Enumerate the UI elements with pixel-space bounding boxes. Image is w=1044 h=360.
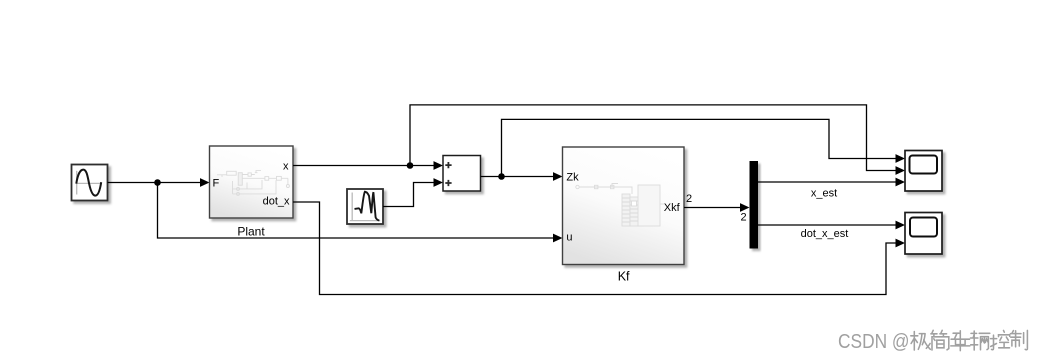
Kf subsystem block [563, 147, 685, 265]
wire Sum output to Kf Zk input [481, 172, 563, 181]
Plant thumbnail [217, 171, 289, 196]
junction on x wire [407, 162, 414, 169]
wire demux output 2 to Scope2 top input [758, 221, 905, 230]
wire Kf Xkf output to demux [684, 203, 750, 212]
svg-text:Zk: Zk [566, 172, 579, 184]
Kf thumbnail [576, 184, 664, 227]
wire x feedthrough to Scope1 middle input [410, 105, 905, 175]
wire Plant dot_x output to Scope2 lower input [293, 202, 905, 295]
svg-text:Plant: Plant [237, 225, 265, 239]
svg-text:Kf: Kf [618, 270, 630, 284]
svg-text:2: 2 [740, 212, 746, 224]
svg-text:2: 2 [686, 193, 692, 205]
band-limited white noise block [347, 189, 383, 224]
demux block [750, 161, 759, 249]
svg-text:CSDN @: CSDN @ [838, 331, 910, 353]
sum plus sign 1 [445, 162, 451, 168]
wire junction down to Kf u input [158, 183, 563, 243]
svg-text:Xkf: Xkf [664, 202, 681, 214]
wire Plant x output to Sum input 1 [293, 161, 443, 170]
scope block 1 [905, 151, 942, 192]
junction on sine output [154, 179, 161, 186]
sine wave source block [72, 165, 108, 201]
svg-text:x_est: x_est [811, 188, 837, 200]
Plant subsystem block [210, 146, 294, 218]
wire sine out to Plant F input [108, 178, 210, 187]
scope block 2 [905, 213, 942, 255]
sum plus sign 2 [445, 180, 451, 186]
svg-text:dot_x_est: dot_x_est [801, 228, 849, 240]
wire demux output 1 to Scope1 bottom input [758, 178, 905, 187]
wire noise out to Sum input 2 [383, 178, 443, 206]
svg-text:dot_x: dot_x [263, 196, 290, 208]
junction on sum output [498, 173, 505, 180]
svg-text:x: x [283, 161, 289, 173]
svg-text:u: u [566, 232, 572, 244]
wire sum output to Scope1 top input [502, 119, 906, 176]
sum block [443, 156, 481, 192]
svg-text:F: F [213, 178, 220, 190]
watermark chinese glyphs [911, 330, 1028, 350]
